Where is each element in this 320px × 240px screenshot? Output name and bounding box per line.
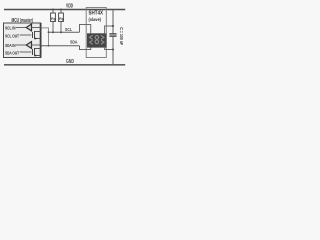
svg-text:C = 100 nF: C = 100 nF: [119, 27, 124, 45]
VDD rail: [4, 9, 125, 11]
node junction SDA: [48, 45, 50, 47]
capacitor C1 bottom plate: [109, 35, 116, 37]
wire MCU SCL pin: [42, 28, 49, 46]
svg-text:SDA OUT: SDA OUT: [5, 51, 19, 57]
wire sensor VSS pin 2: [105, 48, 113, 50]
wire buffer to SCL node: [32, 27, 41, 29]
svg-text:(slave): (slave): [89, 17, 102, 23]
svg-text:SCL IN: SCL IN: [5, 26, 16, 32]
resistor R1 lead bottom: [52, 22, 54, 33]
buffer U1B (SDA input): [26, 42, 31, 49]
wire SCL to sensor pin 4: [80, 25, 91, 34]
svg-text:SDA: SDA: [70, 39, 78, 44]
svg-text:VDD: VDD: [66, 3, 73, 9]
svg-text:SDA IN: SDA IN: [5, 43, 16, 49]
svg-text:SCL: SCL: [65, 27, 72, 32]
resistor R1 (Rp pull-up SCL): [51, 13, 56, 22]
resistor R1 lead top: [52, 10, 54, 13]
wire SCL OUT to gate Q1: [20, 34, 32, 36]
GND rail: [4, 64, 125, 66]
MCU U1 (master) box: [4, 23, 41, 58]
chip marking center 8: [95, 36, 99, 40]
resistor R2 lead top: [60, 10, 62, 13]
wire VDD rail to capacitor: [112, 10, 114, 34]
resistor R2 (Rp pull-up SDA): [59, 13, 64, 22]
chip marking right chevrons: [101, 35, 104, 39]
buffer U1A (SCL input): [26, 24, 31, 31]
sensor chip package SHT4x: [87, 33, 107, 47]
wire SDA OUT to gate Q2: [20, 51, 32, 53]
wire buffer to SDA node: [32, 44, 41, 46]
junction VSS/C: [112, 48, 114, 50]
wire SDA to sensor pin 1: [80, 46, 91, 50]
svg-text:SHT4X: SHT4X: [89, 10, 104, 16]
svg-text:SCL OUT: SCL OUT: [5, 33, 19, 39]
wire sensor VDD pin 3: [105, 26, 113, 33]
svg-text:MCU (master): MCU (master): [12, 18, 34, 24]
svg-text:Rp: Rp: [59, 17, 64, 21]
svg-text:Rp: Rp: [51, 17, 56, 21]
junction R1/SCL: [52, 31, 54, 33]
wire SCL IN to buffer: [16, 27, 26, 29]
wire SCL bus: [49, 31, 80, 33]
capacitor C1 top plate: [109, 33, 116, 35]
wire SDA IN to buffer: [16, 44, 26, 46]
junction R2/SCL: [60, 31, 62, 33]
SHT4X (slave) container box: [86, 8, 106, 58]
junction VDD/C: [112, 25, 114, 27]
node junction SCL: [48, 31, 50, 33]
wire capacitor to GND rail: [112, 37, 114, 65]
svg-text:GND: GND: [66, 59, 74, 65]
transistor Q1 (SCL open-drain): [32, 31, 41, 39]
chip marking left chevrons: [90, 35, 93, 39]
wire MCU SDA pin / SDA bus: [42, 45, 80, 47]
resistor R2 lead bottom: [60, 22, 62, 33]
transistor Q2 (SDA open-drain): [32, 48, 41, 56]
